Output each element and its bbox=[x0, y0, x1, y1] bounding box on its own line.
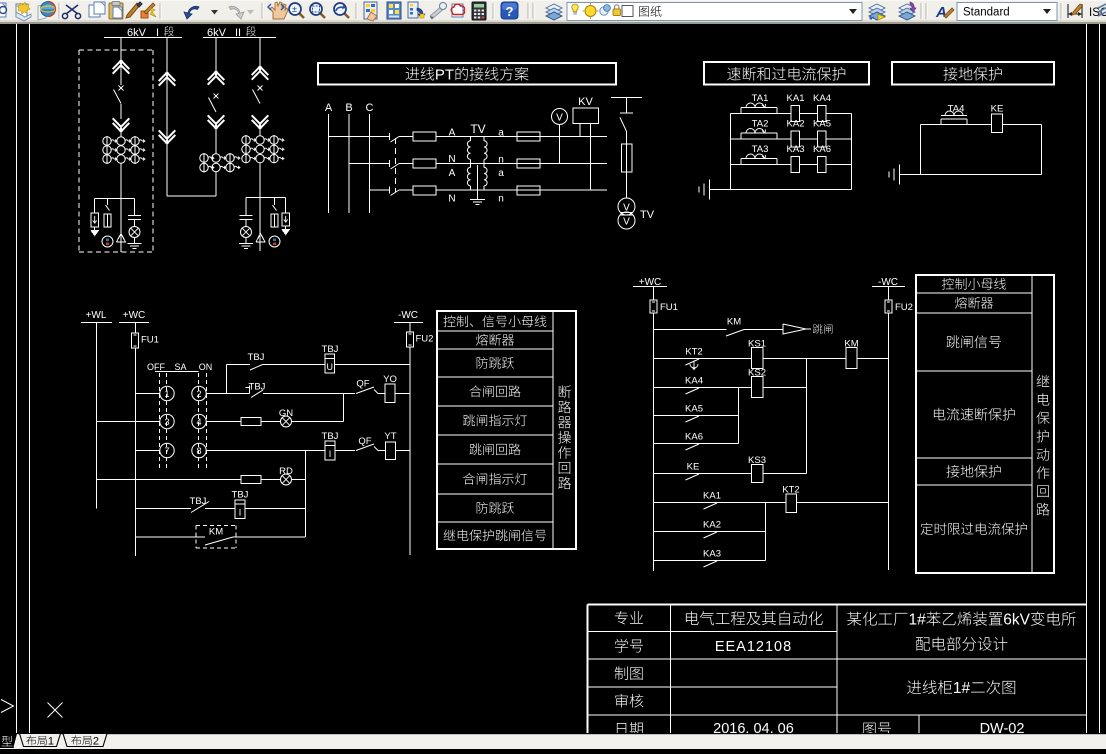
resistor R green bbox=[241, 418, 261, 426]
SA contact 8 bbox=[192, 443, 206, 457]
disconnect contact lower Q2 bbox=[113, 118, 130, 127]
svg-text:1: 1 bbox=[48, 736, 54, 748]
wire row 3-4 bbox=[97, 421, 160, 423]
wire +WL down bbox=[96, 323, 98, 509]
svg-text:6kV: 6kV bbox=[1003, 612, 1030, 629]
ground bbox=[899, 165, 901, 185]
svg-text:?: ? bbox=[506, 4, 514, 19]
wire row C bbox=[370, 189, 390, 191]
svg-text:V: V bbox=[623, 217, 630, 228]
wire bbox=[378, 393, 385, 395]
svg-text:U: U bbox=[327, 362, 334, 372]
disconnect contact bbox=[252, 71, 269, 80]
svg-text:a: a bbox=[498, 128, 504, 139]
ground bbox=[285, 226, 287, 230]
wire loop bbox=[921, 124, 1042, 126]
fuse FU A bbox=[413, 132, 436, 141]
wire phase row bbox=[731, 138, 852, 140]
wire GN riser bbox=[343, 394, 345, 422]
svg-text:KA6: KA6 bbox=[813, 144, 831, 155]
svg-text:1#: 1# bbox=[953, 680, 971, 697]
svg-text:A: A bbox=[325, 102, 333, 114]
svg-text:ON: ON bbox=[199, 362, 213, 372]
svg-text:GN: GN bbox=[279, 408, 293, 419]
svg-text:A: A bbox=[449, 168, 456, 179]
svg-text:I: I bbox=[329, 449, 332, 459]
svg-text:N: N bbox=[448, 194, 455, 205]
svg-text:Standard: Standard bbox=[963, 7, 1010, 19]
svg-text:TBJ: TBJ bbox=[232, 490, 249, 501]
svg-text:YO: YO bbox=[383, 374, 397, 385]
disconnect contact bbox=[208, 76, 225, 85]
svg-text:YT: YT bbox=[384, 431, 396, 442]
tab 布局1 bbox=[20, 734, 61, 747]
svg-text:3: 3 bbox=[164, 417, 169, 427]
disconnect contact bbox=[159, 77, 176, 86]
svg-text:KA4: KA4 bbox=[813, 93, 831, 104]
svg-text:KA2: KA2 bbox=[703, 520, 721, 531]
ground bbox=[94, 227, 96, 231]
svg-text:OFF: OFF bbox=[147, 362, 165, 372]
wire KA riser 2 bbox=[765, 503, 767, 561]
current transformers TA grid bay2 feeder2 bbox=[242, 136, 250, 144]
wire bottom bbox=[710, 189, 852, 191]
svg-text:DW-02: DW-02 bbox=[980, 721, 1025, 733]
SA contact 4 bbox=[192, 414, 206, 428]
wire phase row bbox=[731, 164, 852, 166]
svg-text:8: 8 bbox=[196, 446, 201, 456]
wire bus tie bbox=[167, 195, 216, 197]
svg-text:TV: TV bbox=[640, 209, 655, 221]
svg-text:TA2: TA2 bbox=[752, 119, 769, 130]
svg-text:KM: KM bbox=[727, 317, 741, 328]
svg-text:6kV: 6kV bbox=[127, 27, 147, 39]
current transformers TA grid bay1 bbox=[103, 137, 111, 145]
wire right riser bbox=[305, 451, 307, 538]
SA contact 3 bbox=[160, 414, 174, 428]
svg-text:KE: KE bbox=[991, 104, 1004, 115]
svg-text:KA6: KA6 bbox=[685, 432, 703, 443]
svg-text:FU2: FU2 bbox=[416, 334, 434, 345]
svg-text:FU1: FU1 bbox=[660, 302, 678, 313]
wire KA2 row bbox=[654, 531, 766, 533]
svg-text:-WC: -WC bbox=[398, 310, 418, 321]
svg-text:TBJ: TBJ bbox=[190, 496, 207, 507]
wire bay2 feeder2 bbox=[259, 38, 261, 67]
surge arrester F2 bbox=[282, 213, 290, 226]
svg-text:KE: KE bbox=[687, 462, 700, 473]
wire bay2 feeder1 bbox=[215, 38, 217, 78]
svg-text:FU1: FU1 bbox=[141, 335, 159, 346]
svg-text:B: B bbox=[345, 102, 352, 114]
svg-text:KV: KV bbox=[578, 96, 593, 108]
lamp HL1 bbox=[134, 220, 136, 227]
svg-text:A: A bbox=[935, 4, 947, 21]
wire bbox=[120, 131, 122, 138]
svg-text:QF: QF bbox=[356, 379, 369, 390]
wire bay1 feeder1 upper bbox=[120, 38, 122, 86]
title block texts bbox=[615, 611, 628, 625]
svg-text:SA: SA bbox=[174, 362, 186, 372]
wire row 1-2 bbox=[136, 393, 160, 395]
fuse FU1 bbox=[135, 323, 137, 334]
crosshair cursor bbox=[48, 703, 63, 718]
disconnect contact bbox=[159, 130, 176, 139]
SA contact 2 bbox=[192, 386, 206, 400]
voltmeter PV bbox=[552, 109, 568, 125]
title box 进线PT的接线方案 bbox=[318, 63, 616, 85]
svg-text:TBJ: TBJ bbox=[322, 344, 339, 355]
fuse FU b bbox=[517, 159, 540, 168]
wire row A bbox=[329, 136, 390, 138]
svg-text:KA2: KA2 bbox=[787, 119, 805, 130]
tab 布局2 bbox=[63, 734, 107, 747]
svg-text:2: 2 bbox=[196, 389, 201, 399]
breaker QF2 blade bbox=[214, 94, 219, 99]
svg-text:2: 2 bbox=[93, 736, 99, 748]
wire bbox=[259, 128, 261, 137]
wire KA riser bbox=[738, 388, 740, 444]
breaker QF1 blade bbox=[119, 86, 124, 91]
svg-text:RD: RD bbox=[279, 466, 293, 477]
disconnect contact upper Q1 bbox=[113, 65, 130, 74]
capacitor C1 bbox=[128, 215, 141, 217]
svg-text:KA4: KA4 bbox=[685, 376, 703, 387]
UCS arrow bbox=[1, 700, 14, 713]
svg-text:FU2: FU2 bbox=[895, 302, 913, 313]
svg-text:KA5: KA5 bbox=[685, 404, 703, 415]
wire bbox=[120, 104, 122, 119]
resistor R red bbox=[241, 476, 261, 484]
svg-text:TA1: TA1 bbox=[752, 93, 769, 104]
svg-text:+WC: +WC bbox=[123, 310, 146, 321]
wire KA3 row bbox=[654, 560, 766, 562]
disconnect contact bbox=[252, 115, 269, 124]
indicator PV2 bbox=[269, 236, 280, 247]
contact KM (in dashed box) bbox=[196, 525, 236, 527]
svg-text:TBJ: TBJ bbox=[322, 431, 339, 442]
svg-text:KT2: KT2 bbox=[685, 347, 702, 358]
trip arrow 跳闸 bbox=[783, 324, 806, 334]
fuse FU2 right bbox=[888, 287, 890, 301]
wire bay1 main down bbox=[120, 163, 122, 252]
wire KV leads bbox=[579, 124, 581, 137]
node 6kV bus I bbox=[104, 37, 182, 39]
delta winding symbol bbox=[256, 234, 265, 243]
wire anti-pump riser bbox=[226, 365, 228, 394]
svg-text:C: C bbox=[366, 102, 374, 114]
wire -WC down bbox=[409, 347, 411, 555]
svg-text:TBJ: TBJ bbox=[249, 382, 266, 393]
svg-text:I: I bbox=[156, 27, 159, 39]
svg-text:TBJ: TBJ bbox=[248, 352, 265, 363]
fuse FU B bbox=[413, 159, 436, 168]
svg-text:PT: PT bbox=[435, 66, 454, 83]
wire phase row bbox=[731, 113, 852, 115]
fuse FU a bbox=[517, 132, 540, 141]
SA contact 7 bbox=[160, 443, 174, 457]
switch blade bbox=[620, 118, 627, 133]
svg-text:a: a bbox=[498, 168, 504, 179]
fuse FU with switch bbox=[106, 205, 110, 211]
voltage transformer TV secondary bbox=[618, 198, 635, 215]
wire row 7-8 bbox=[136, 450, 160, 452]
svg-text:N: N bbox=[448, 154, 455, 165]
wire KA5 row bbox=[654, 415, 739, 417]
ground bbox=[134, 238, 136, 244]
svg-text:2016. 04. 06: 2016. 04. 06 bbox=[713, 721, 794, 733]
current transformers TA grid bay2 feeder1 bbox=[200, 154, 208, 162]
open-delta circuit top bar bbox=[611, 97, 642, 99]
fuse FU tv bbox=[626, 132, 628, 144]
capacitor C2 bbox=[240, 215, 253, 217]
title block frame bbox=[588, 604, 1087, 606]
wire riser after KS bbox=[806, 359, 808, 474]
svg-text:1: 1 bbox=[164, 389, 169, 399]
title box 速断和过电流保护 bbox=[704, 62, 869, 85]
svg-text:V: V bbox=[556, 113, 563, 124]
wire row2 bbox=[206, 393, 249, 395]
wire -WC down right bbox=[888, 313, 890, 570]
wire bay1 branch bbox=[95, 198, 135, 200]
wire +WC down bbox=[135, 348, 137, 556]
svg-text:KA3: KA3 bbox=[703, 549, 721, 560]
svg-text:TV: TV bbox=[470, 122, 485, 136]
ground bbox=[709, 180, 711, 200]
wire RD row bbox=[97, 479, 242, 481]
wire KM row bbox=[136, 536, 206, 538]
disconnect contact bbox=[208, 115, 225, 124]
isolator blades QS bbox=[388, 133, 390, 140]
svg-text:KM: KM bbox=[209, 527, 223, 538]
wire bay2 main down bbox=[259, 163, 261, 252]
svg-text:n: n bbox=[498, 194, 504, 205]
fuse FU1 right bbox=[653, 287, 655, 301]
lamp HL2 bbox=[245, 220, 247, 227]
SA contact 1 bbox=[160, 386, 174, 400]
svg-text:II: II bbox=[235, 27, 241, 39]
wire TBJ-U row bbox=[227, 364, 251, 366]
surge arrester F1 bbox=[91, 213, 99, 227]
wire KE row bbox=[654, 473, 752, 475]
svg-text:KA1: KA1 bbox=[703, 491, 721, 502]
wire right bus bbox=[851, 114, 853, 190]
fuse FU with switch bbox=[273, 205, 277, 211]
breaker QF3 blade bbox=[258, 86, 263, 91]
wire bay1 feeder2 bbox=[166, 38, 168, 197]
wire voltmeter lead bbox=[559, 125, 561, 164]
wire TBJ row bbox=[136, 508, 192, 510]
node 6kV bus II bbox=[203, 37, 276, 39]
wire KA6 row bbox=[654, 443, 739, 445]
fuse FU2 bbox=[409, 323, 411, 333]
wire bbox=[215, 128, 217, 155]
fuse FU C bbox=[413, 186, 436, 195]
svg-text:6kV: 6kV bbox=[207, 27, 227, 39]
svg-text:4: 4 bbox=[196, 417, 201, 427]
wire signal row KT2-KS1-KM bbox=[654, 358, 752, 360]
svg-text:KA5: KA5 bbox=[813, 119, 831, 130]
svg-text:KA1: KA1 bbox=[787, 93, 805, 104]
wire left bus bbox=[730, 114, 732, 190]
table breaker operation legend bbox=[437, 311, 576, 549]
svg-text:7: 7 bbox=[164, 446, 169, 456]
svg-text:1#: 1# bbox=[909, 612, 927, 629]
ground bbox=[245, 238, 247, 244]
svg-text:EEA12108: EEA12108 bbox=[715, 639, 792, 655]
wire bbox=[215, 172, 217, 197]
wire KA1 row bbox=[654, 502, 787, 504]
ground of secondary neutral bbox=[477, 165, 479, 200]
svg-text:KA3: KA3 bbox=[787, 144, 805, 155]
table relay protection legend bbox=[916, 275, 1054, 573]
fuse FU c bbox=[517, 186, 540, 195]
delta winding symbol bbox=[117, 234, 126, 243]
title box 接地保护 bbox=[892, 62, 1054, 85]
wire bay2 branch bbox=[246, 197, 286, 199]
indicator PV1 bbox=[102, 236, 113, 247]
svg-text:n: n bbox=[498, 155, 504, 166]
tab 模型 (active) bbox=[0, 733, 18, 748]
svg-text:±: ± bbox=[292, 4, 297, 14]
wire +WC down right bbox=[653, 313, 655, 571]
wire KA4 row bbox=[654, 387, 752, 389]
wire row B bbox=[349, 163, 389, 165]
svg-text:TA3: TA3 bbox=[752, 144, 769, 155]
wire KM trip row bbox=[654, 329, 727, 331]
svg-text:+WL: +WL bbox=[86, 310, 107, 321]
cubicle outline (dashed) bay 1 bbox=[79, 49, 153, 51]
svg-text:A: A bbox=[449, 128, 456, 139]
svg-text:I: I bbox=[239, 508, 242, 518]
